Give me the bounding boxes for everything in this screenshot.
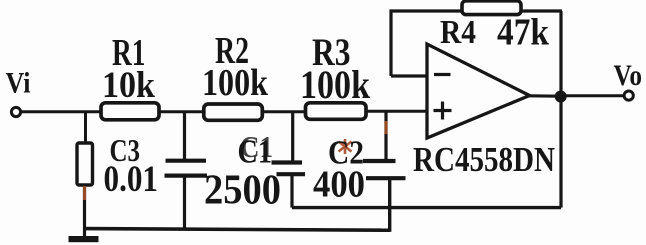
wire node C down to C2 xyxy=(291,111,294,163)
wire C2 down to bootstrap rail xyxy=(290,175,293,208)
svg-text:Vo: Vo xyxy=(614,59,643,92)
wire feedback left vertical xyxy=(389,10,392,77)
svg-text:RC4558DN: RC4558DN xyxy=(413,140,555,179)
op-amp U1 RC4558DN xyxy=(427,44,530,138)
capacitor C2 top plate xyxy=(272,160,303,164)
ground xyxy=(69,236,99,242)
wire C1 to ground rail xyxy=(183,177,186,231)
resistor R2 xyxy=(204,104,262,120)
svg-text:R4: R4 xyxy=(440,14,476,51)
output terminal Vo xyxy=(624,91,633,100)
wire R3 to op-amp noninverting input xyxy=(366,110,427,113)
wire C3 to ground rail xyxy=(83,184,86,242)
watermark asterisk xyxy=(339,139,352,154)
capacitor C4 bottom plate xyxy=(366,176,406,180)
capacitor C1 top plate xyxy=(166,159,207,163)
capacitor C2 bottom plate xyxy=(277,172,306,176)
watermark tick on C3 lead xyxy=(83,186,86,200)
wire inverting input xyxy=(391,74,427,77)
input terminal Vi xyxy=(11,107,20,116)
wire node A down to C3 xyxy=(84,111,87,145)
node output junction dot xyxy=(555,91,567,103)
wire node B down to C1 xyxy=(183,111,186,161)
wire C4 to ground rail xyxy=(388,179,391,232)
svg-text:100k: 100k xyxy=(300,62,371,107)
capacitor C3 (box symbol) xyxy=(77,143,93,185)
wire feedback right vertical down to bootstrap rail xyxy=(559,11,562,208)
op-amp inverting pin mark xyxy=(434,73,451,76)
svg-text:C1: C1 xyxy=(238,134,273,171)
svg-text:Vi: Vi xyxy=(6,67,31,100)
wire node D down to C4 xyxy=(384,110,387,160)
wire bootstrap rail to output xyxy=(292,206,561,209)
svg-text:2500: 2500 xyxy=(204,167,281,213)
wire output to Vo terminal xyxy=(561,94,624,97)
svg-text:100k: 100k xyxy=(202,62,269,104)
svg-text:0.01: 0.01 xyxy=(104,159,159,200)
op-amp noninverting pin mark xyxy=(434,109,452,112)
capacitor C1 bottom plate xyxy=(165,174,208,178)
resistor R4 xyxy=(462,1,521,15)
wire R1 to R2 xyxy=(159,110,204,113)
wire op-amp output xyxy=(528,94,561,98)
resistor R1 xyxy=(101,103,159,120)
watermark tick on C4 lead xyxy=(384,121,387,134)
ground rail xyxy=(85,229,391,231)
svg-text:47k: 47k xyxy=(497,11,550,53)
wire Vi to R1 xyxy=(21,110,101,113)
wire R2 to R3 xyxy=(262,110,306,113)
svg-text:10k: 10k xyxy=(102,65,155,106)
capacitor C4 top plate xyxy=(363,159,396,163)
resistor R3 xyxy=(306,103,367,120)
svg-text:400: 400 xyxy=(313,164,365,206)
wire feedback top rail xyxy=(390,9,563,12)
